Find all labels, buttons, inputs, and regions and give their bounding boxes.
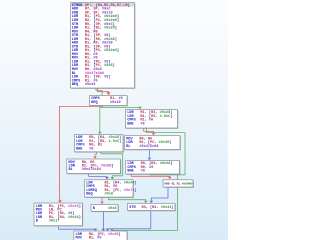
svg-text:STR: STR [129,206,136,210]
wire: block10 exit (blue) to block13 [59,226,96,229]
basic block 6 (call) [67,159,121,174]
wire: block7 true branch (green) joins long edge [150,173,178,176]
svg-text:BNE: BNE [76,147,82,151]
svg-text:BNE: BNE [127,122,133,126]
wire: block12 fallthrough (blue) to block13 [108,210,151,229]
basic block 2 (CMPS/BEQ) [90,96,128,107]
wire: block7 false branch (red) to block9 [131,174,170,176]
svg-text:R3, R3, #0x5B400: R3, R3, #0x5B400 [172,183,193,186]
svg-text:#0x44: #0x44 [85,83,97,87]
basic block 1 (function entry) [71,3,136,89]
svg-text:BEQ: BEQ [91,101,98,105]
basic block 3 [126,110,179,129]
wire: block3 false branch (red) to block5 [144,128,154,132]
wire: block4 false branch (red) to block6 [95,152,96,156]
svg-text:#0x8: #0x8 [108,207,117,211]
wire: block6 fallthrough (blue) to block8 [89,174,107,177]
svg-text:BL: BL [69,168,73,172]
wire: block5 fallthrough (blue) to block7 [148,150,150,157]
basic block 4 [74,135,123,153]
wire: block4 true branch (green) to block8 [101,152,123,177]
basic block 11 (B) [91,205,119,213]
svg-text:#0x475c84: #0x475c84 [139,145,159,149]
basic block 12 (STR) [128,203,176,211]
svg-text:BL: BL [126,145,130,149]
svg-text:MOV: MOV [76,237,83,240]
svg-text:#0x8: #0x8 [105,193,114,197]
basic block 5 (call) [125,136,181,151]
wire: block1 true branch (green) down behind block2 to block4 [96,88,102,134]
svg-text:ADD: ADD [164,183,169,186]
wire: block11 jump (blue) to block13 [102,211,104,229]
svg-text:BNE: BNE [127,170,133,174]
svg-text:R3, [R4, #0x44]: R3, [R4, #0x44] [142,205,174,210]
svg-text:#0x475c84: #0x475c84 [82,168,102,172]
wire: block8 true branch (green) to block12 [109,198,146,201]
svg-text:R1, #0: R1, #0 [89,237,102,240]
svg-text:#8: #8 [141,170,145,174]
svg-text:BEQ: BEQ [86,193,93,197]
basic block 10 (indirect call) [34,203,83,227]
wire: block9 fallthrough (blue) to block12 [151,187,168,200]
wire: block3 true branch (green) long right edge to block13 [112,128,185,230]
svg-text:#0: #0 [89,147,93,151]
svg-text:#8: #8 [140,122,144,126]
svg-text:BEQ: BEQ [72,83,79,87]
selected instruction highlight [71,3,134,7]
svg-text:#0x10: #0x10 [110,101,121,105]
wire: block2 false branch (red) long left edge to block10 [60,106,104,201]
svg-text:#0x17: #0x17 [49,220,60,224]
wire: block8 false branch (red) to block11 [101,198,103,202]
basic block 13 (exit) [74,231,128,240]
basic block 8 [85,180,137,198]
basic block 7 [126,161,181,175]
wire: block1 false branch (red) to block2 [98,88,109,92]
wire: branch of green to block3 [100,107,140,108]
basic block 9 (ADD) [163,180,194,188]
